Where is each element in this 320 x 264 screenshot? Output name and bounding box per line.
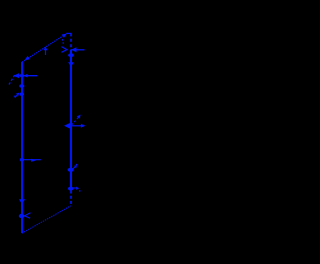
node B big left arrowhead [64,122,72,129]
small chevron arrow east of bottom dot [25,213,31,219]
wire bottom diagonal link [22,206,71,233]
junction dot left vertical upper [19,84,24,88]
small right arrowhead under node D stub [31,159,36,162]
small left arrowhead east of node C [23,74,28,78]
junction dot left vertical with label [20,92,25,96]
wire left vertical AB [21,62,23,233]
junction dot left vertical bottom [19,214,25,218]
down arrowhead on left vertical lower [19,199,25,204]
wire right vertical [70,50,72,190]
junction dot right vertical lower [68,187,73,191]
node B horizontal vector east [71,125,82,127]
dashed SW construction stub at node C [9,75,15,85]
junction dot node C [20,74,24,77]
mid arrow under top diagonal [45,49,47,56]
node C horizontal vector with left arrow [14,75,37,77]
dashed segment right vertical bottom [70,191,72,206]
junction dot below node A [68,53,74,57]
arrowhead left into node A [71,47,77,52]
node A junction [71,49,85,51]
tiny right arrow at lower dot [73,187,77,189]
node D stub east [22,159,41,161]
arrowhead SW on top diagonal near corner [25,56,30,60]
small chevron arrow west of node A [62,47,67,53]
node B dashed NE construction arrow [72,117,79,125]
down arrowhead on right vertical [68,62,74,67]
top jog wire [66,32,71,34]
junction dot right vertical mid [68,168,74,172]
arrowhead NE tip of top diagonal [62,34,67,38]
wire top diagonal link [22,34,65,62]
dotted rotation arc from top arrowhead [62,39,63,45]
dashed vertical construction top [70,33,72,48]
tiny NE arrow at mid dot [73,166,76,168]
tiny NE arrow label glyph [15,94,19,98]
